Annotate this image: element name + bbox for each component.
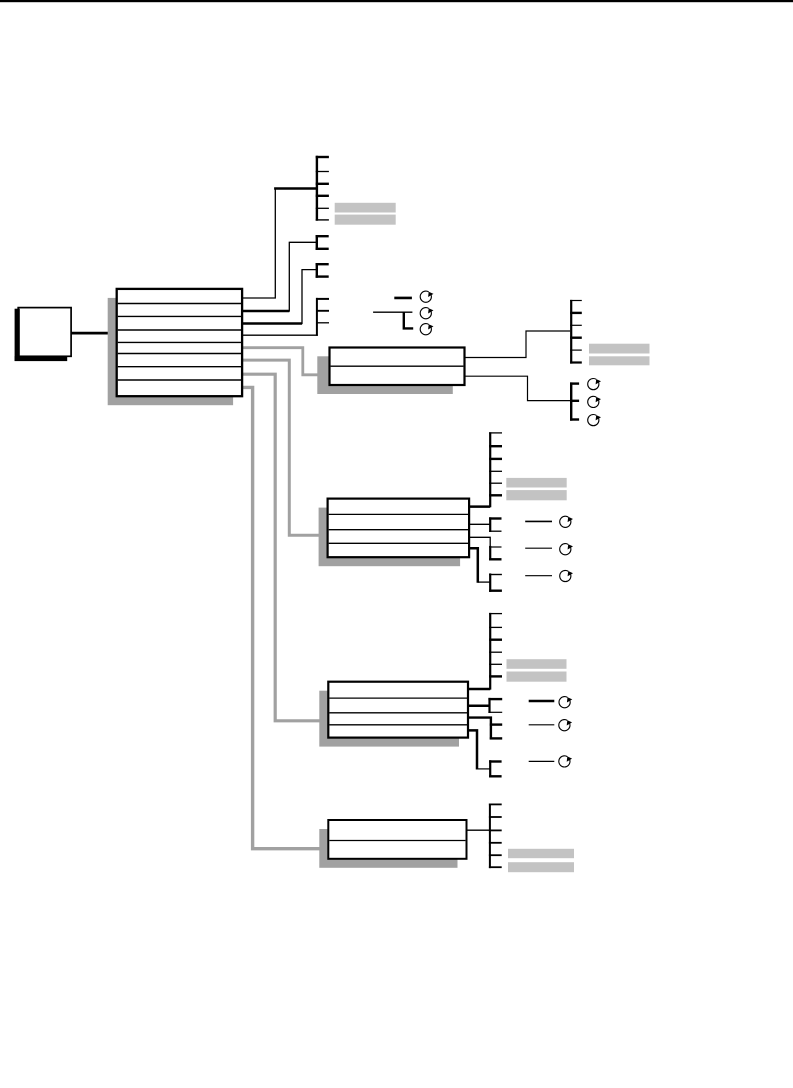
label bar (redacted) C-01 line2 bbox=[335, 215, 396, 225]
wire: module B row3 to connector C-08 bbox=[469, 537, 490, 546]
top border rule bbox=[0, 0, 793, 2]
label bar (redacted) C-05 line1 bbox=[589, 344, 650, 354]
label bar (redacted) C-05 line2 bbox=[589, 356, 650, 365]
connector C-14 (6-pin comb) bbox=[489, 804, 502, 869]
relay box A shadow bbox=[317, 356, 453, 394]
connector C-10 (6-pin comb) bbox=[489, 613, 502, 690]
connector C-11 (2-pin comb) bbox=[488, 698, 502, 713]
ground point G11 bbox=[559, 720, 572, 731]
junction block bbox=[117, 289, 242, 396]
connector C-05 (6-pin comb) bbox=[570, 300, 582, 364]
ground point G7 bbox=[560, 516, 573, 527]
ground point G10 bbox=[559, 697, 572, 708]
ground point G3 bbox=[420, 324, 433, 335]
wire: junction block row4 to connector C-04 bbox=[242, 334, 318, 336]
wire: module C row3 to connector C-12 bbox=[468, 718, 491, 740]
module D shadow bbox=[319, 829, 457, 868]
label bar (redacted) C-01 line1 bbox=[335, 203, 396, 213]
ground point G9 bbox=[560, 570, 573, 581]
label bar (redacted) C-10 line2 bbox=[507, 672, 567, 682]
pigtail lead row1 (module B) bbox=[525, 520, 552, 522]
wire: gray harness A (junction block row5 to relay box A) bbox=[242, 348, 320, 375]
ground point G12 bbox=[559, 756, 572, 767]
pigtail lead row2 (module C) bbox=[529, 724, 555, 726]
module D bbox=[328, 820, 466, 859]
ground strap stub bbox=[394, 297, 412, 300]
ground point G2 bbox=[420, 308, 433, 319]
wire: relay box A row2 to ground bracket bbox=[465, 376, 571, 400]
connector C-04 (3-pin comb) bbox=[316, 298, 329, 336]
wire: relay box A row1 to connector C-05 bbox=[465, 331, 571, 358]
battery box B1 bbox=[15, 308, 72, 362]
connector C-06 (6-pin comb) bbox=[489, 432, 502, 507]
wire: module C row1 to connector C-10 bbox=[468, 688, 490, 691]
wire: module B row4 to connector C-09 bbox=[469, 548, 490, 582]
label bar (redacted) C-14 line2 bbox=[508, 862, 574, 872]
wire: module B row2 to connector C-07 bbox=[469, 523, 490, 525]
wire: module C row4 to connector C-13 bbox=[468, 730, 490, 769]
module C shadow bbox=[319, 691, 459, 747]
label bar (redacted) C-06 line1 bbox=[506, 478, 566, 488]
ground point G5 bbox=[588, 396, 601, 407]
wire: module B row1 to connector C-06 bbox=[469, 505, 490, 508]
ground branch drop bbox=[404, 312, 413, 329]
module B shadow bbox=[319, 508, 461, 567]
label bar (redacted) C-10 line1 bbox=[507, 659, 567, 669]
wire: gray harness C (junction block row7 to module C) bbox=[242, 374, 330, 721]
ground point G1 bbox=[420, 291, 433, 302]
pigtail lead row2 (module B) bbox=[525, 547, 552, 549]
junction block shadow bbox=[108, 298, 233, 405]
wire: module D to connector C-14 bbox=[467, 829, 490, 831]
wire: gray harness D (junction block row8 to module D) bbox=[242, 387, 330, 848]
connector C-12 (2-pin comb) bbox=[490, 725, 502, 739]
ground point G6 bbox=[588, 415, 601, 426]
connector C-02 (2-pin comb) bbox=[316, 235, 329, 250]
pigtail lead row1 (module C) bbox=[529, 700, 555, 703]
pigtail lead row3 (module B) bbox=[525, 575, 552, 577]
wire: junction block row3 to connector C-03 bbox=[242, 270, 317, 325]
wire: junction block row2 to connector C-02 bbox=[242, 242, 317, 311]
connector C-08 (2-pin comb) bbox=[489, 546, 501, 561]
connector C-07 (2-pin comb) bbox=[489, 517, 501, 532]
relay box A bbox=[330, 348, 465, 386]
ground point G8 bbox=[560, 544, 573, 555]
label bar (redacted) C-06 line2 bbox=[506, 490, 566, 500]
label bar (redacted) C-14 line1 bbox=[508, 849, 574, 858]
ground lead wire bbox=[373, 311, 412, 313]
wire: junction block row1 to connector C-01 bbox=[242, 189, 317, 299]
wire: gray harness B (junction block row6 to module B) bbox=[242, 360, 330, 535]
wire: module C row2 to connector C-11 bbox=[468, 705, 490, 708]
module B bbox=[328, 499, 470, 558]
pigtail lead row3 (module C) bbox=[529, 760, 555, 762]
connector C-13 (2-pin comb) bbox=[489, 760, 502, 777]
wire: battery B1 to junction block bbox=[71, 332, 112, 335]
connector C-03 (2-pin comb) bbox=[316, 263, 329, 278]
ground point G4 bbox=[588, 379, 601, 390]
connector C-01 (6-pin comb) bbox=[316, 156, 329, 221]
ground bracket (3-pin) bbox=[570, 382, 579, 420]
connector C-09 (2-pin comb) bbox=[489, 573, 502, 592]
module C bbox=[328, 682, 468, 738]
